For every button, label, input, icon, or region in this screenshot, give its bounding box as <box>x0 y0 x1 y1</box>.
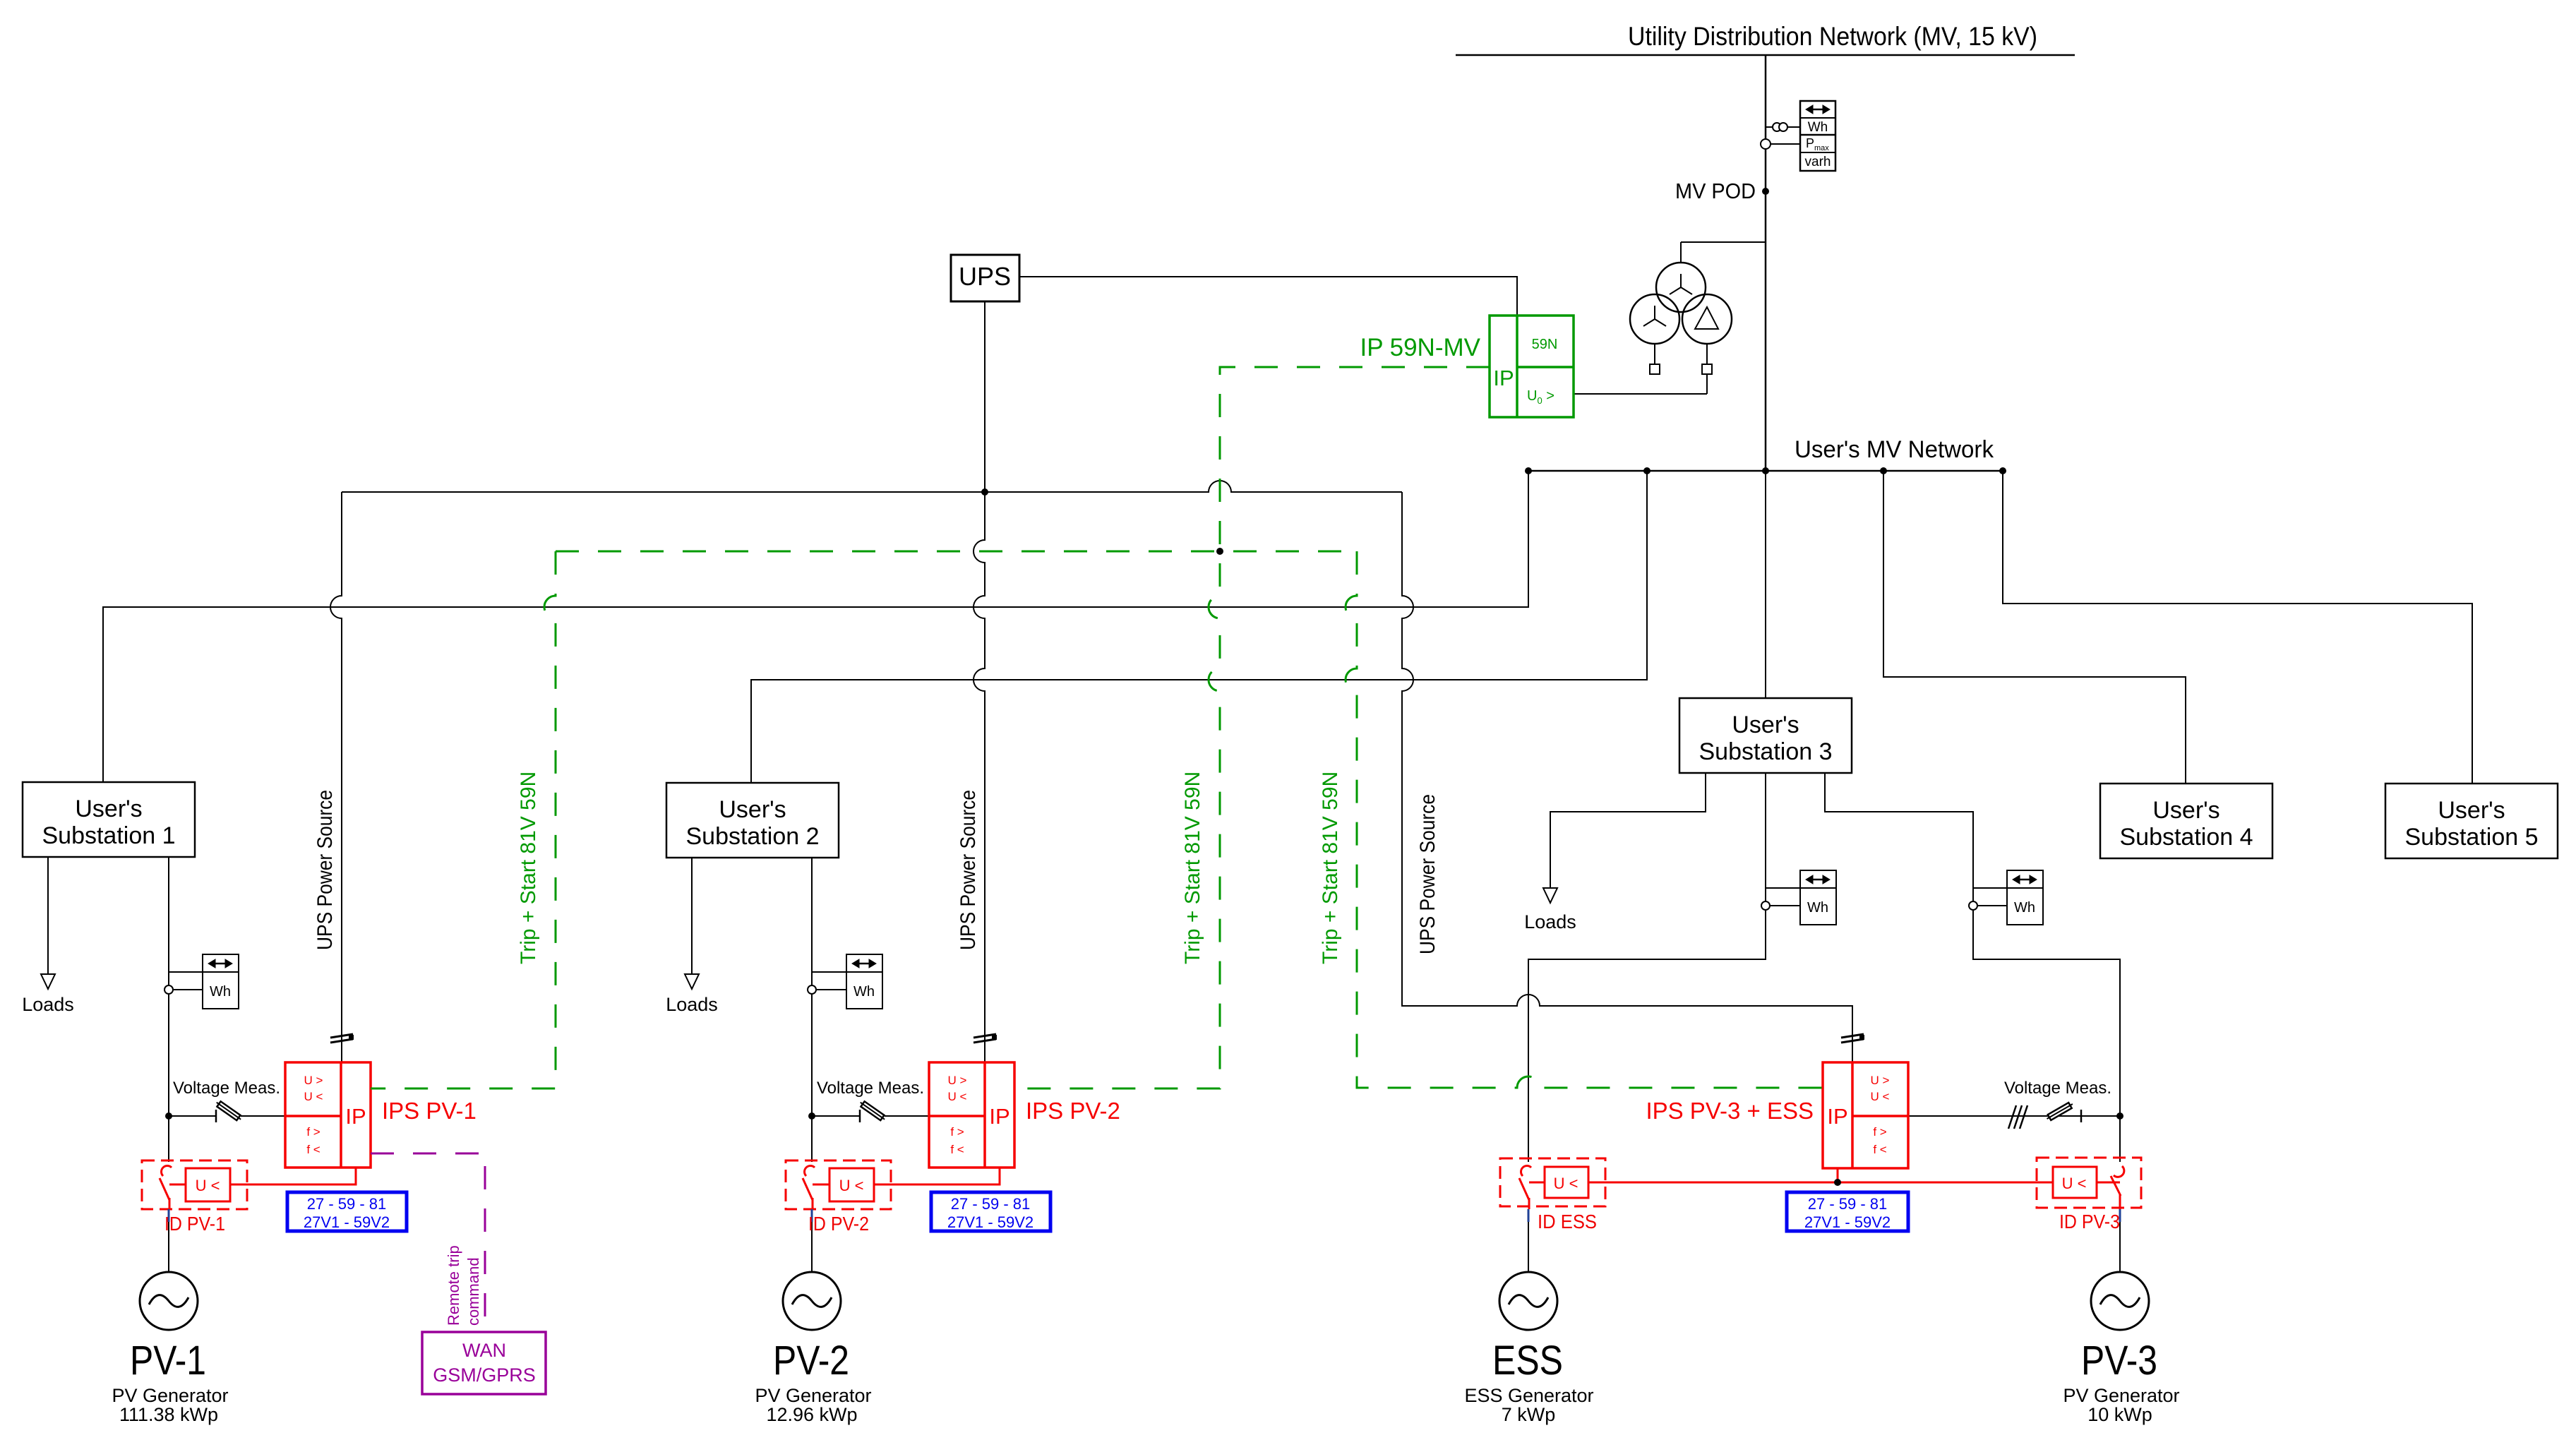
svg-text:User's: User's <box>2152 797 2219 824</box>
svg-text:IP: IP <box>1493 366 1514 390</box>
svg-text:U <: U < <box>304 1090 323 1103</box>
svg-text:Wh: Wh <box>853 984 875 1000</box>
svg-text:PV-1: PV-1 <box>130 1338 206 1384</box>
svg-text:Utility Distribution Network (: Utility Distribution Network (MV, 15 kV) <box>1628 22 2037 51</box>
svg-text:12.96 kWp: 12.96 kWp <box>766 1404 857 1425</box>
svg-text:27 - 59 - 81: 27 - 59 - 81 <box>307 1195 387 1213</box>
svg-text:U >: U > <box>1871 1074 1890 1087</box>
svg-text:Trip + Start 81V 59N: Trip + Start 81V 59N <box>1319 772 1342 964</box>
svg-text:111.38 kWp: 111.38 kWp <box>119 1404 218 1425</box>
svg-text:PV Generator: PV Generator <box>2063 1385 2179 1406</box>
svg-text:User's: User's <box>2438 797 2505 824</box>
svg-text:GSM/GPRS: GSM/GPRS <box>433 1364 536 1386</box>
svg-text:Substation 5: Substation 5 <box>2404 824 2538 851</box>
svg-text:IP: IP <box>989 1104 1010 1129</box>
svg-text:Loads: Loads <box>22 994 74 1015</box>
svg-text:f <: f < <box>950 1143 964 1156</box>
svg-text:UPS Power Source: UPS Power Source <box>1416 794 1439 954</box>
svg-text:PV-2: PV-2 <box>773 1338 849 1384</box>
svg-text:WAN: WAN <box>462 1340 506 1361</box>
svg-text:PV-3: PV-3 <box>2081 1338 2157 1384</box>
svg-text:UPS Power Source: UPS Power Source <box>313 790 337 950</box>
svg-text:Wh: Wh <box>2014 900 2035 916</box>
svg-text:7 kWp: 7 kWp <box>1502 1404 1556 1425</box>
svg-text:Wh: Wh <box>1807 900 1828 916</box>
svg-text:27 - 59 - 81: 27 - 59 - 81 <box>1808 1195 1888 1213</box>
svg-text:Substation 3: Substation 3 <box>1699 738 1832 765</box>
svg-text:Substation 4: Substation 4 <box>2119 824 2253 851</box>
svg-text:IP: IP <box>1827 1104 1847 1129</box>
svg-text:Voltage Meas.: Voltage Meas. <box>817 1079 924 1098</box>
svg-text:U <: U < <box>948 1090 967 1103</box>
svg-text:27 - 59 - 81: 27 - 59 - 81 <box>951 1195 1031 1213</box>
svg-text:varh: varh <box>1805 155 1831 169</box>
svg-text:IPS PV-1: IPS PV-1 <box>382 1098 477 1124</box>
svg-text:MV POD: MV POD <box>1675 179 1756 203</box>
svg-text:Substation 2: Substation 2 <box>685 823 819 850</box>
svg-text:f <: f < <box>306 1143 320 1156</box>
svg-text:PV Generator: PV Generator <box>112 1385 228 1406</box>
svg-text:User's MV Network: User's MV Network <box>1795 436 1994 463</box>
svg-text:ID PV-1: ID PV-1 <box>164 1213 225 1235</box>
svg-text:Substation 1: Substation 1 <box>42 822 175 849</box>
svg-text:U <: U < <box>839 1177 864 1194</box>
svg-text:PV Generator: PV Generator <box>755 1385 871 1406</box>
svg-text:command: command <box>465 1257 482 1326</box>
svg-text:ID PV-2: ID PV-2 <box>808 1213 869 1235</box>
svg-text:IPS PV-3 + ESS: IPS PV-3 + ESS <box>1646 1098 1814 1124</box>
svg-text:U <: U < <box>2062 1175 2087 1192</box>
svg-text:Remote trip: Remote trip <box>445 1245 462 1326</box>
svg-text:ESS Generator: ESS Generator <box>1464 1385 1593 1406</box>
svg-text:Wh: Wh <box>210 984 231 1000</box>
svg-text:10 kWp: 10 kWp <box>2087 1404 2152 1425</box>
svg-text:IPS PV-2: IPS PV-2 <box>1026 1098 1120 1124</box>
svg-text:ESS: ESS <box>1492 1338 1563 1384</box>
svg-text:27V1 - 59V2: 27V1 - 59V2 <box>304 1213 390 1231</box>
svg-text:U >: U > <box>304 1074 323 1087</box>
svg-text:Loads: Loads <box>1524 911 1576 932</box>
svg-text:f >: f > <box>306 1125 320 1139</box>
svg-text:UPS: UPS <box>959 262 1011 291</box>
svg-text:U <: U < <box>1554 1175 1578 1192</box>
svg-text:Wh: Wh <box>1808 120 1828 135</box>
svg-text:ID ESS: ID ESS <box>1538 1211 1597 1232</box>
svg-text:f >: f > <box>1873 1125 1886 1139</box>
svg-text:User's: User's <box>75 796 142 822</box>
svg-text:Voltage Meas.: Voltage Meas. <box>173 1079 280 1098</box>
svg-text:Loads: Loads <box>666 994 718 1015</box>
svg-text:U >: U > <box>948 1074 967 1087</box>
svg-text:User's: User's <box>1732 712 1799 738</box>
svg-text:f <: f < <box>1873 1143 1886 1156</box>
svg-text:U <: U < <box>196 1177 220 1194</box>
svg-text:f >: f > <box>950 1125 964 1139</box>
svg-text:27V1 - 59V2: 27V1 - 59V2 <box>947 1213 1034 1231</box>
svg-text:Trip + Start 81V 59N: Trip + Start 81V 59N <box>517 772 540 964</box>
svg-text:U <: U < <box>1871 1090 1890 1103</box>
svg-text:User's: User's <box>719 796 786 823</box>
svg-text:59N: 59N <box>1532 337 1558 352</box>
svg-text:ID PV-3: ID PV-3 <box>2059 1211 2120 1232</box>
svg-text:27V1 - 59V2: 27V1 - 59V2 <box>1804 1213 1891 1231</box>
svg-text:Voltage Meas.: Voltage Meas. <box>2004 1079 2111 1098</box>
svg-text:UPS Power Source: UPS Power Source <box>957 790 980 950</box>
svg-text:IP: IP <box>345 1104 366 1129</box>
svg-text:IP 59N-MV: IP 59N-MV <box>1360 334 1480 361</box>
svg-text:Trip + Start 81V 59N: Trip + Start 81V 59N <box>1181 772 1204 964</box>
